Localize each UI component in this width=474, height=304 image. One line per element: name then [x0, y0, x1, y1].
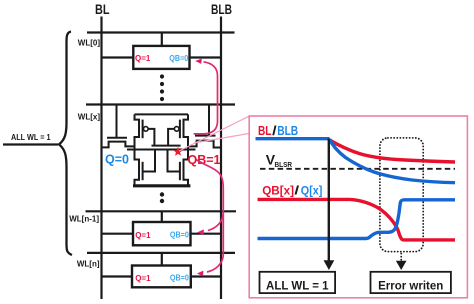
svg-text:Q=0: Q=0: [105, 153, 129, 167]
svg-text:WL[n-1]: WL[n-1]: [69, 215, 99, 224]
svg-text:QB=0: QB=0: [170, 274, 189, 283]
svg-text:Q=1: Q=1: [135, 231, 151, 240]
svg-text:Error writen: Error writen: [378, 280, 443, 292]
svg-text:WL[x]: WL[x]: [78, 113, 101, 122]
svg-text:QB=0: QB=0: [169, 54, 188, 63]
svg-text:QB=0: QB=0: [170, 231, 189, 240]
svg-text:BLB: BLB: [211, 2, 232, 17]
svg-text:WL[0]: WL[0]: [78, 39, 101, 48]
svg-text:Q[x]: Q[x]: [301, 183, 323, 197]
svg-text:ALL WL = 1: ALL WL = 1: [11, 132, 51, 142]
svg-text:WL[n]: WL[n]: [77, 259, 100, 268]
svg-text:Q=1: Q=1: [135, 54, 151, 63]
svg-text:Q=1: Q=1: [135, 274, 151, 283]
svg-text:BLB: BLB: [277, 123, 298, 138]
svg-text:BL: BL: [258, 123, 272, 138]
svg-text:QB[x]: QB[x]: [262, 183, 294, 197]
svg-text:ALL WL = 1: ALL WL = 1: [266, 280, 329, 292]
svg-text:BL: BL: [95, 2, 110, 17]
